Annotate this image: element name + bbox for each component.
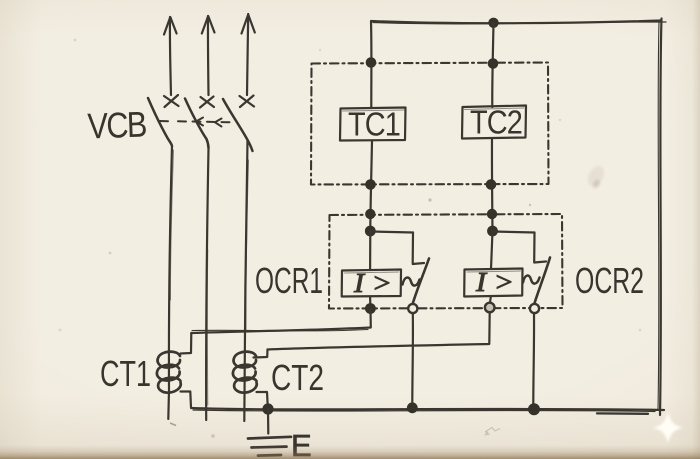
junction: OCR2 wire at enclosure top edge xyxy=(487,209,497,219)
OCR enclosure (dash-dot box) xyxy=(329,214,563,309)
svg-text:CT1: CT1 xyxy=(100,353,151,394)
OCR1 relay ~ (AC symbol) xyxy=(403,278,420,286)
trip coil TC2 (box) xyxy=(462,106,526,139)
OCR2 coil exit terminal (open circle) at enclosure bottom edge xyxy=(485,303,495,313)
wire: phase 2 from breaker down xyxy=(206,148,208,420)
wire: incoming feeder phase 1 with arrow xyxy=(164,17,177,95)
ground electrode E xyxy=(248,409,291,456)
wire: OCR1 coil tail to CT1 secondary xyxy=(191,309,370,333)
svg-text:TC2: TC2 xyxy=(470,104,522,141)
junction: OCR2 contact on bottom bus xyxy=(528,403,540,415)
OCR2 contact branch wire xyxy=(493,232,547,263)
overcurrent relay OCR1: coil branch junction xyxy=(365,226,376,237)
wire: OCR2 coil tail to CT2 secondary xyxy=(268,312,490,350)
OCR2 relay element box I> xyxy=(464,269,522,297)
junction: OCR1 coil exit at enclosure bottom edge xyxy=(365,303,376,314)
junction: TC2 tap on top bus xyxy=(488,18,498,28)
OCR1 contact blade xyxy=(412,259,429,306)
CT2 secondary lead (bottom) xyxy=(257,392,268,408)
junction: TC2 wire at enclosure bottom edge xyxy=(486,179,497,190)
CT1 secondary lead (bottom) xyxy=(181,392,192,408)
VCB mechanical linkage (dashed with arrows) xyxy=(160,118,235,127)
CT1 secondary lead (top) xyxy=(181,333,192,354)
circuit breaker VCB pole 3 (fixed contact x, blade) xyxy=(223,96,254,152)
trip-coil enclosure (dash-dot box) xyxy=(311,63,549,185)
svg-text:I >: I > xyxy=(353,268,392,298)
junction: TC1 wire at enclosure top edge xyxy=(366,57,377,68)
current transformer CT1 (coil on phase 1) xyxy=(157,352,181,393)
circuit breaker VCB pole 1 (fixed contact x, blade) xyxy=(148,95,179,146)
junction: OCR1 wire at enclosure top edge xyxy=(365,209,375,219)
OCR2 wire junction to relay box xyxy=(491,231,493,269)
svg-text:OCR1: OCR1 xyxy=(255,260,323,301)
circuit breaker VCB pole 2 (fixed contact x, blade) xyxy=(185,97,214,149)
OCR2 relay ~ (AC symbol) xyxy=(523,276,540,284)
OCR1 wire junction to relay box xyxy=(369,231,371,270)
bottom bus wire xyxy=(191,408,664,414)
wire: incoming feeder phase 3 with arrow xyxy=(242,14,255,95)
wire: TC1 branch from top bus to trip-coil enclosure xyxy=(370,22,373,109)
wire: TC2 branch from top bus down xyxy=(492,23,493,107)
junction: TC1 wire at enclosure bottom edge xyxy=(365,179,376,190)
OCR1 contact branch wire xyxy=(370,232,424,265)
overcurrent relay OCR2: coil branch junction xyxy=(487,226,498,237)
OCR2 relay box to bottom-edge terminal xyxy=(489,297,492,304)
sparkle bottom right (decorative) xyxy=(653,412,683,444)
svg-text:I >: I > xyxy=(475,267,514,297)
current transformer CT2 (coil on phase 3) xyxy=(233,352,257,393)
svg-text:CT2: CT2 xyxy=(271,357,324,398)
OCR1 relay element box I> xyxy=(342,270,401,297)
wire: phase 1 from breaker down to CT1 xyxy=(168,146,173,419)
top bus wire (trip supply) xyxy=(371,21,666,24)
wire: incoming feeder phase 2 with arrow xyxy=(202,16,215,95)
wire: phase 3 from breaker down to CT2 xyxy=(244,140,248,421)
OCR2 contact blade xyxy=(534,258,550,306)
wire: OCR1 contact down to bottom bus xyxy=(411,313,414,409)
junction: CT2/earth on bottom bus xyxy=(262,403,273,414)
OCR1 contact terminal (open circle) xyxy=(408,304,417,313)
OCR2 contact terminal (open circle) xyxy=(530,304,539,313)
trip coil TC1 (box) xyxy=(340,108,406,141)
wire: right-hand riser from top bus to bottom bus xyxy=(658,19,662,416)
junction: TC2 wire at enclosure top edge xyxy=(488,58,499,69)
junction: OCR1 contact on bottom bus xyxy=(407,402,418,413)
svg-text:VCB: VCB xyxy=(87,103,147,146)
wire: TC1 to OCR junction xyxy=(370,141,372,232)
svg-text:TC1: TC1 xyxy=(348,106,400,143)
svg-text:OCR2: OCR2 xyxy=(575,260,644,301)
wire: TC2 to OCR junction xyxy=(491,139,494,232)
paper speckles (decorative) xyxy=(59,39,642,438)
OCR1 relay box to bottom-edge junction xyxy=(369,297,371,305)
wire: OCR2 contact down to bottom bus xyxy=(532,314,535,410)
CT2 secondary lead (top) xyxy=(254,350,268,358)
